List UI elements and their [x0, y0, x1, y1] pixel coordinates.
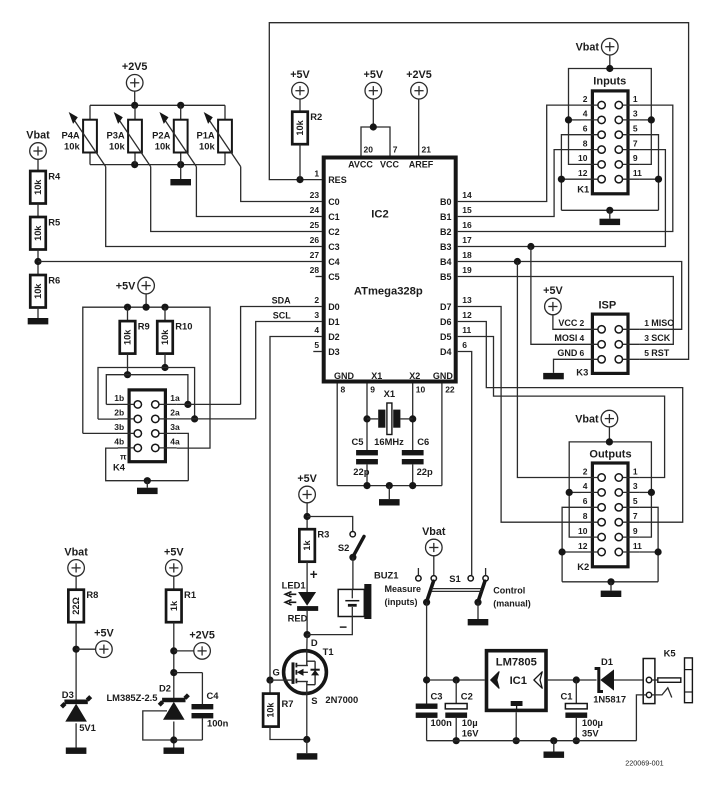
- svg-text:GND: GND: [334, 371, 355, 381]
- svg-text:π: π: [120, 452, 127, 462]
- junction K2 pin3/Vbat: [648, 489, 655, 496]
- svg-text:P3A: P3A: [106, 129, 124, 140]
- svg-text:10k: 10k: [199, 141, 215, 152]
- svg-text:R3: R3: [317, 529, 329, 540]
- svg-text:2: 2: [583, 94, 588, 104]
- svg-text:5: 5: [633, 124, 638, 134]
- svg-text:D1: D1: [328, 317, 340, 327]
- svg-text:14: 14: [462, 190, 472, 200]
- svg-text:+5V: +5V: [543, 285, 563, 297]
- svg-text:D: D: [311, 637, 318, 648]
- svg-text:K1: K1: [577, 183, 589, 194]
- svg-text:B5: B5: [440, 272, 452, 282]
- svg-text:D4: D4: [440, 347, 452, 357]
- svg-text:28: 28: [310, 265, 320, 275]
- wire LED1 to drain node: [306, 611, 308, 635]
- svg-text:Measure: Measure: [385, 584, 422, 594]
- LED LED1: [282, 579, 319, 623]
- wire D3 to ground: [75, 723, 77, 747]
- connector K2 (Outputs): [578, 463, 642, 567]
- svg-text:X1: X1: [384, 388, 395, 399]
- wire R5 to R6: [37, 250, 39, 276]
- capacitor C4: [174, 673, 229, 740]
- svg-text:100µ: 100µ: [582, 717, 603, 728]
- svg-text:(inputs): (inputs): [385, 597, 418, 607]
- svg-text:AREF: AREF: [409, 160, 434, 170]
- wire pot top rail: [90, 104, 225, 106]
- svg-text:D2: D2: [159, 682, 171, 693]
- svg-text:B1: B1: [440, 212, 452, 222]
- junction C6 bottom: [409, 482, 416, 489]
- svg-text:+2V5: +2V5: [189, 629, 215, 641]
- wire P4A wiper to C3: [106, 167, 322, 247]
- power +5V (AVCC/VCC): [364, 69, 384, 99]
- svg-text:Vbat: Vbat: [26, 129, 50, 141]
- wire IC2 pin10 X2: [412, 384, 414, 451]
- wire D1 to K5: [614, 679, 646, 681]
- svg-text:1k: 1k: [169, 600, 179, 611]
- crystal X1 (16MHz): [367, 388, 413, 447]
- wire IC1 input from D1: [548, 679, 597, 681]
- wire pot bottom rail: [90, 164, 225, 166]
- svg-text:220069-001: 220069-001: [625, 758, 663, 767]
- svg-text:1k: 1k: [302, 539, 312, 550]
- junction R9/SDA link: [124, 371, 131, 378]
- svg-text:22p: 22p: [417, 466, 433, 477]
- wire bottom ground rail: [427, 740, 637, 742]
- svg-text:12: 12: [578, 541, 588, 551]
- wire S2 to BUZ1: [352, 557, 354, 589]
- wire R10 to SCL link: [164, 354, 166, 368]
- wire +5V to ISP VCC: [553, 314, 581, 329]
- svg-text:+2V5: +2V5: [406, 69, 432, 81]
- svg-text:10k: 10k: [123, 329, 133, 345]
- svg-text:BUZ1: BUZ1: [374, 570, 398, 581]
- power Vbat (K1): [576, 38, 619, 55]
- svg-text:7: 7: [393, 144, 398, 154]
- wire R1 to D2: [173, 622, 175, 701]
- svg-text:X2: X2: [409, 371, 420, 381]
- wire +2V5 to pot rail: [134, 91, 136, 106]
- power Vbat (divider): [26, 129, 50, 159]
- svg-text:C1: C1: [328, 212, 340, 222]
- svg-text:3: 3: [633, 481, 638, 491]
- svg-text:+5V: +5V: [164, 546, 184, 558]
- svg-text:K3: K3: [576, 367, 588, 378]
- power +5V (R2): [290, 69, 310, 99]
- wire pin 4b to ground rail: [106, 448, 189, 481]
- svg-text:10k: 10k: [33, 225, 43, 241]
- svg-text:3: 3: [633, 109, 638, 119]
- wire SCL link 2b-2a: [98, 368, 195, 420]
- svg-text:VCC: VCC: [380, 160, 400, 170]
- wire P3A wiper to C2: [151, 167, 322, 232]
- svg-text:5: 5: [633, 496, 638, 506]
- junction X1 left: [363, 415, 370, 422]
- resistor R2: [292, 111, 322, 144]
- wire Vbat to K1 pin10: [569, 120, 582, 164]
- zener diode D2: [159, 695, 188, 720]
- wire pin 1a to SDA: [177, 403, 241, 405]
- svg-text:(manual): (manual): [493, 598, 531, 608]
- capacitor C1: [561, 680, 603, 741]
- svg-text:C5: C5: [352, 436, 364, 447]
- wire B4 branch to K2 pin2: [517, 262, 581, 478]
- wire to +2V5 symbol: [174, 650, 194, 652]
- svg-text:1a: 1a: [170, 393, 180, 403]
- svg-text:4: 4: [583, 109, 588, 119]
- svg-text:2N7000: 2N7000: [325, 694, 358, 705]
- junction ground stem: [550, 737, 557, 744]
- svg-text:MOSI: MOSI: [554, 333, 577, 343]
- svg-text:9: 9: [370, 384, 375, 394]
- junction IC1 gnd/rail: [513, 737, 520, 744]
- svg-text:D2: D2: [328, 332, 340, 342]
- svg-text:R5: R5: [48, 216, 60, 227]
- svg-text:7: 7: [633, 511, 638, 521]
- wire P1A wiper to C0: [241, 167, 322, 202]
- wire K1 ground rail: [561, 209, 658, 211]
- regulator IC1 (LM7805): [487, 651, 547, 711]
- junction K4 ground: [144, 477, 151, 484]
- wire drain node to T1: [306, 635, 308, 651]
- junction AVCC/VCC: [370, 123, 377, 130]
- svg-text:D7: D7: [440, 302, 452, 312]
- wire B3 to K1 pin7: [458, 150, 666, 247]
- junction pot rail P3A bottom: [131, 161, 138, 168]
- junction K1 pin11/gnd: [655, 176, 662, 183]
- K3 pin labels: [554, 299, 674, 377]
- svg-text:IC1: IC1: [510, 675, 527, 687]
- wire +5V rail to pins 3b/4a: [83, 307, 210, 448]
- svg-text:19: 19: [462, 265, 472, 275]
- junction +5V feed: [143, 304, 150, 311]
- svg-text:AVCC: AVCC: [348, 160, 373, 170]
- svg-text:LED1: LED1: [282, 579, 306, 590]
- ground (R6): [28, 318, 49, 324]
- wire K2 pin4: [569, 491, 581, 493]
- svg-text:100n: 100n: [431, 717, 453, 728]
- svg-text:10k: 10k: [109, 141, 125, 152]
- svg-text:SCK: SCK: [651, 333, 671, 343]
- wire R7 to source node: [270, 727, 307, 740]
- wire rail to IC1 output: [427, 679, 485, 681]
- svg-text:4: 4: [583, 481, 588, 491]
- svg-text:D5: D5: [440, 332, 452, 342]
- wire +5V to K4 rail: [145, 293, 147, 307]
- power +2V5 (D2 node): [189, 629, 215, 659]
- svg-text:13: 13: [462, 295, 472, 305]
- svg-text:10k: 10k: [160, 329, 170, 345]
- svg-text:MISO: MISO: [651, 318, 674, 328]
- wire D2 to ground: [173, 722, 175, 748]
- svg-text:R4: R4: [48, 170, 61, 181]
- svg-text:27: 27: [310, 250, 320, 260]
- wire K1 pin3: [639, 119, 651, 121]
- D2 labels: [106, 682, 171, 703]
- junction C4 return: [170, 736, 177, 743]
- ground (T1): [297, 753, 318, 759]
- potentiometer P2A: [152, 105, 196, 166]
- svg-text:11: 11: [462, 325, 471, 335]
- svg-text:G: G: [273, 667, 280, 678]
- svg-text:Outputs: Outputs: [589, 448, 631, 460]
- D3 labels: [62, 689, 96, 733]
- svg-text:6: 6: [579, 348, 584, 358]
- transistor T1 (2N7000 MOSFET): [273, 637, 359, 706]
- svg-text:1b: 1b: [114, 393, 124, 403]
- K4 key marker and label: [113, 452, 127, 473]
- node Control (manual) label: [493, 585, 531, 608]
- junction C2 top: [453, 676, 460, 683]
- svg-text:10k: 10k: [295, 119, 305, 135]
- wire D7 to K2 pin8: [458, 307, 581, 523]
- svg-text:RST: RST: [651, 348, 670, 358]
- svg-text:LM385Z-2.5: LM385Z-2.5: [106, 692, 157, 703]
- svg-text:D3: D3: [328, 347, 340, 357]
- svg-text:10: 10: [416, 384, 426, 394]
- wire R2 to RES node: [299, 144, 301, 179]
- svg-text:D6: D6: [440, 317, 452, 327]
- svg-text:10k: 10k: [33, 179, 43, 195]
- wire R8 to D3: [75, 622, 77, 701]
- wire K4 ground stem: [146, 481, 148, 488]
- svg-text:10k: 10k: [266, 702, 276, 718]
- svg-text:11: 11: [633, 168, 642, 178]
- svg-text:3: 3: [314, 310, 319, 320]
- junction B4/K2: [514, 258, 521, 265]
- junction R10/SCL link: [161, 364, 168, 371]
- svg-text:B3: B3: [440, 242, 452, 252]
- wire Vbat down: [609, 55, 611, 69]
- svg-text:24: 24: [310, 205, 320, 215]
- wire R9 to SDA link: [127, 354, 129, 375]
- svg-text:SDA: SDA: [272, 296, 292, 306]
- power +5V (K4): [116, 277, 155, 294]
- svg-text:8: 8: [583, 138, 588, 148]
- svg-text:C1: C1: [561, 690, 573, 701]
- junction divider tap: [34, 258, 41, 265]
- junction K1 Vbat: [606, 65, 613, 72]
- svg-text:35V: 35V: [582, 727, 599, 738]
- svg-text:VCC: VCC: [558, 318, 578, 328]
- svg-text:ATmega328p: ATmega328p: [354, 285, 423, 297]
- wire +5V to R3: [306, 502, 308, 529]
- wire pin 3a to ground rail: [177, 433, 189, 480]
- wire crystal gnd stem: [388, 486, 390, 500]
- junction B3/MOSI: [527, 243, 534, 250]
- svg-text:+5V: +5V: [364, 69, 384, 81]
- svg-text:C3: C3: [328, 242, 340, 252]
- capacitor C2: [445, 680, 479, 741]
- wire ground stem: [553, 741, 555, 752]
- svg-text:26: 26: [310, 235, 320, 245]
- capacitor C6: [402, 436, 433, 486]
- potentiometer P1A: [196, 105, 240, 166]
- wire IC2 pin9 X1: [366, 384, 368, 451]
- junction +5V tap: [73, 646, 80, 653]
- svg-text:22p: 22p: [353, 466, 369, 477]
- wire Vbat to S1 contact: [433, 555, 435, 575]
- wire IC2 pin22 GND: [441, 384, 443, 486]
- ground (pot bank): [170, 179, 191, 185]
- wire B4/MISO to ISP pin1: [458, 262, 682, 330]
- resistor R5: [30, 216, 60, 249]
- svg-text:1N5817: 1N5817: [593, 693, 626, 704]
- wire K2 pin12: [562, 551, 581, 553]
- ground (K1): [600, 219, 621, 225]
- resistor R7: [263, 694, 293, 727]
- junction source/ground: [303, 736, 310, 743]
- svg-text:10µ: 10µ: [462, 717, 478, 728]
- wire Vbat to K2 pin10: [569, 492, 581, 537]
- svg-text:17: 17: [462, 235, 472, 245]
- diode D1 (1N5817 Schottky): [593, 656, 626, 704]
- wire D4 to S1: [458, 352, 472, 576]
- potentiometer P3A: [106, 105, 150, 166]
- ground (D2): [164, 748, 185, 754]
- svg-text:B2: B2: [440, 227, 452, 237]
- wire D2 adj loop: [143, 711, 174, 740]
- wire K1 Vbat rail: [569, 69, 652, 121]
- wire source to ground: [306, 740, 308, 754]
- power Vbat (K2): [575, 410, 618, 427]
- wire R3 to LED1: [306, 562, 308, 592]
- wire K1 ground stem: [609, 210, 611, 218]
- svg-text:3: 3: [644, 333, 649, 343]
- svg-text:C5: C5: [328, 272, 340, 282]
- junction LED1/BUZ1/T1: [304, 631, 311, 638]
- connector K5 (power jack): [643, 647, 692, 703]
- wire IC1 ground pin: [515, 712, 517, 741]
- wire ISP GND: [554, 359, 582, 373]
- svg-text:2b: 2b: [114, 408, 124, 418]
- svg-text:R1: R1: [184, 589, 196, 600]
- svg-text:6: 6: [583, 496, 588, 506]
- wire D2 to T1 gate: [270, 337, 322, 681]
- wire C5 stub (NC): [316, 276, 322, 278]
- svg-text:23: 23: [310, 190, 320, 200]
- wire Vbat to K1 pin9: [639, 120, 651, 164]
- junction R10 top: [161, 304, 168, 311]
- junction K2 ground stem: [607, 578, 614, 585]
- junction K1 pin12/gnd: [558, 176, 565, 183]
- svg-text:Vbat: Vbat: [64, 546, 88, 558]
- wire +5V to R2: [299, 99, 301, 112]
- svg-text:1: 1: [314, 168, 319, 178]
- junction C1 top: [573, 676, 580, 683]
- svg-text:B0: B0: [440, 197, 452, 207]
- switch S1 (DPDT): [416, 568, 489, 606]
- wire MOSI branch to ISP pin4: [531, 247, 581, 345]
- wire K1 pin5 to ground: [639, 135, 658, 211]
- svg-text:4: 4: [314, 325, 319, 335]
- junction C3 top: [423, 676, 430, 683]
- wire AVCC/VCC bridge: [361, 127, 390, 156]
- svg-text:GND: GND: [433, 371, 454, 381]
- capacitor C3: [416, 690, 452, 740]
- wire K1 pin11: [639, 178, 658, 180]
- svg-text:1: 1: [644, 318, 649, 328]
- svg-text:4a: 4a: [170, 437, 180, 447]
- wire Vbat to R4: [37, 159, 39, 171]
- svg-text:K4: K4: [113, 462, 126, 473]
- resistor R8: [68, 589, 98, 622]
- resistor R4: [30, 170, 61, 203]
- switch S2: [338, 532, 364, 561]
- svg-text:C2: C2: [461, 690, 473, 701]
- wire to pin 2b: [98, 418, 118, 420]
- svg-text:6: 6: [462, 340, 467, 350]
- connector K3 (ISP): [581, 314, 639, 373]
- svg-text:4b: 4b: [114, 437, 124, 447]
- resistor R3: [299, 529, 329, 562]
- svg-text:12: 12: [578, 168, 588, 178]
- wire Vbat to R8: [75, 576, 77, 590]
- svg-text:K2: K2: [577, 561, 589, 572]
- wire K2 Vbat rail: [569, 442, 651, 494]
- wire K5 sleeve to ground rail: [636, 695, 646, 741]
- svg-text:10: 10: [578, 153, 588, 163]
- svg-text:S1: S1: [449, 573, 460, 584]
- svg-text:2: 2: [314, 295, 319, 305]
- svg-text:D0: D0: [328, 302, 340, 312]
- wire B1 to K1 pin8: [458, 150, 581, 217]
- svg-text:P2A: P2A: [152, 129, 170, 140]
- svg-text:+5V: +5V: [116, 280, 136, 292]
- wire to pin 1b: [106, 403, 118, 405]
- junction R9 top: [124, 304, 131, 311]
- svg-text:22: 22: [445, 384, 455, 394]
- wire K2 ground stem: [610, 582, 612, 591]
- junction RES/R2: [296, 176, 303, 183]
- wire B5/SCK to ISP pin3: [458, 277, 674, 345]
- svg-text:2a: 2a: [170, 408, 180, 418]
- svg-text:10k: 10k: [33, 283, 43, 299]
- svg-text:IC2: IC2: [371, 208, 388, 220]
- svg-text:2: 2: [579, 318, 584, 328]
- svg-text:10: 10: [578, 526, 588, 536]
- svg-text:9: 9: [633, 526, 638, 536]
- junction X1 right: [409, 415, 416, 422]
- svg-text:9: 9: [633, 153, 638, 163]
- wire S1 pole2 to ground: [477, 602, 479, 619]
- svg-text:S: S: [311, 695, 317, 706]
- wire R4 to R5: [37, 204, 39, 218]
- ground (power input): [544, 752, 565, 758]
- svg-text:+5V: +5V: [290, 69, 310, 81]
- svg-text:5: 5: [644, 348, 649, 358]
- svg-text:R9: R9: [138, 320, 150, 331]
- resistor R9: [120, 320, 150, 353]
- svg-text:X1: X1: [371, 371, 382, 381]
- junction K2 pin11/gnd: [655, 548, 662, 555]
- svg-text:8: 8: [341, 384, 346, 394]
- ground (K2): [601, 591, 622, 597]
- power Vbat (S1): [422, 526, 446, 556]
- junction C1 bottom: [573, 737, 580, 744]
- svg-text:C0: C0: [328, 197, 340, 207]
- svg-text:ISP: ISP: [599, 299, 617, 311]
- wire gate node to R7: [269, 680, 271, 694]
- svg-text:RED: RED: [288, 612, 308, 623]
- svg-text:LM7805: LM7805: [496, 656, 537, 668]
- IC2 pin numbers: [310, 144, 472, 394]
- wire +2V5 to AREF: [418, 99, 420, 156]
- junction pot rail P2A top: [177, 102, 184, 109]
- wire gate node to T1: [270, 679, 284, 681]
- power +2V5 (AREF): [406, 69, 432, 99]
